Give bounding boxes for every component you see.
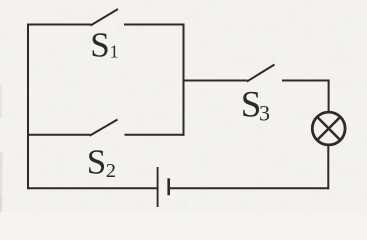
wire bottom left segment: [27, 187, 158, 189]
battery short plate: [167, 178, 170, 195]
wire right vertical: [183, 24, 185, 136]
svg-text:2: 2: [106, 160, 116, 182]
switch S3 blade: [247, 65, 275, 82]
battery long plate: [157, 167, 159, 207]
wire S2 right segment: [125, 134, 185, 136]
switch S2 blade: [90, 120, 118, 136]
wire bottom right segment: [169, 187, 330, 189]
svg-text:S: S: [87, 143, 106, 182]
wire S2 left segment: [28, 134, 90, 136]
svg-text:S: S: [90, 26, 109, 65]
wire left vertical: [27, 25, 29, 190]
wire S3 branch left: [184, 80, 248, 82]
wire S3 right segment: [282, 80, 330, 82]
switch S1 blade: [91, 9, 119, 26]
wire lamp bottom lead: [327, 146, 329, 190]
svg-text:3: 3: [259, 100, 270, 125]
wire top right segment: [124, 24, 185, 26]
wire lamp top lead: [328, 80, 330, 113]
lamp L1 circle: [312, 112, 345, 145]
svg-text:1: 1: [110, 42, 119, 62]
wire top left segment: [27, 24, 91, 26]
lamp L1 cross: [317, 117, 340, 140]
